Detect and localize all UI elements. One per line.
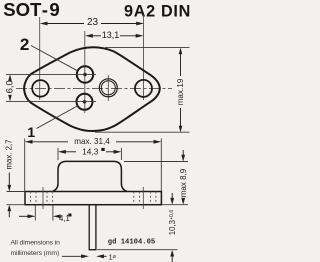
title 9A2 DIN [124, 2, 191, 20]
dimension max 8,9 extension line (cap top) [124, 162, 188, 205]
svg-text:All dimensions in: All dimensions in [11, 239, 61, 246]
hidden mounting hole right (dashed) [134, 192, 156, 205]
label 2 [20, 35, 29, 54]
dimension 4,1 text [59, 214, 72, 224]
pin 1 circle [77, 94, 93, 110]
side hole centerline left [42, 187, 44, 209]
label 1 [27, 125, 35, 141]
centerline left hole vertical [39, 17, 41, 100]
svg-text:max. 2,7: max. 2,7 [5, 140, 14, 170]
dimension 6,0 extension lines [6, 74, 96, 101]
dimension max 8,9 text [179, 168, 188, 197]
svg-text:max. 31,4: max. 31,4 [74, 137, 110, 146]
svg-text:1: 1 [27, 125, 35, 141]
dimension 4,1 [19, 214, 61, 218]
dimension 13,1 [85, 34, 144, 38]
dimension 1 dia text [109, 252, 117, 261]
dimension max. 31,4 extension lines [25, 139, 162, 191]
dimension max.19 text [176, 78, 185, 105]
dimension max.19 [179, 48, 183, 133]
side view flange [25, 192, 161, 205]
dimension 4,1 extension lines [35, 205, 53, 221]
pin 2 circle [77, 66, 93, 82]
dimension 23 [40, 22, 144, 26]
pin 2 dot [83, 73, 86, 76]
dimension max. 2,7 extension lines [7, 192, 26, 205]
dimension 13,1 text [102, 30, 120, 40]
lead pin side view [89, 205, 96, 250]
centerline horizontal through holes and stud [16, 87, 172, 89]
dimension 6,0 text [5, 80, 16, 93]
dimension 10,3+0,6 text [168, 210, 177, 236]
center stud inner [101, 81, 115, 95]
dimension 10,3+0,6 [170, 193, 174, 262]
dimension max 8,9 [181, 150, 185, 205]
leader from label 2 to pin 2 [31, 46, 78, 71]
mounting hole right [135, 80, 152, 97]
dimension 10,3 extension line (pin bottom) [97, 249, 178, 251]
hidden mounting hole left (dashed) [31, 192, 53, 205]
centerline pins vertical [84, 31, 86, 113]
centerline right hole vertical [143, 15, 145, 100]
dimension max. 2,7 text [5, 140, 14, 170]
dimension max. 31,4 [25, 140, 162, 144]
svg-text:millimeters (mm): millimeters (mm) [11, 250, 60, 257]
svg-text:6,0: 6,0 [5, 80, 16, 93]
svg-text:14,3: 14,3 [82, 146, 99, 156]
dimension 14,3 text [82, 146, 105, 156]
doc number gd 14104.05 [108, 239, 155, 247]
svg-text:SOT-9: SOT-9 [3, 0, 60, 20]
side view cap [53, 161, 127, 191]
dimension max. 31,4 text [74, 137, 110, 146]
leader from label 1 to pin 1 [37, 106, 78, 129]
mounting hole left [32, 80, 49, 97]
svg-text:gd 14104.05: gd 14104.05 [108, 239, 155, 247]
dimension 23 text [87, 17, 99, 28]
svg-text:4,1: 4,1 [59, 214, 70, 223]
dimension 14,3 extension lines [58, 148, 121, 160]
dimension 14,3 [58, 150, 121, 154]
svg-text:9A2 DIN: 9A2 DIN [124, 2, 191, 20]
svg-text:23: 23 [87, 17, 99, 28]
pin 1 dot [83, 100, 86, 103]
dimension 6,0 [8, 74, 12, 101]
centerline stud vertical [107, 75, 109, 101]
side hole centerline right [142, 187, 144, 209]
svg-text:13,1: 13,1 [102, 30, 120, 40]
svg-text:max.19: max.19 [176, 78, 185, 105]
dimension max. 2,7 [7, 173, 11, 218]
svg-text:2: 2 [20, 35, 29, 54]
package top view outline [24, 47, 160, 131]
title SOT-9 [3, 0, 60, 20]
note all dimensions [11, 239, 61, 256]
svg-text:max 8,9: max 8,9 [179, 168, 188, 197]
center stud outer [99, 79, 117, 97]
dimension 1 dia arrows [62, 254, 107, 258]
dimension max.19 extension lines [95, 47, 190, 132]
